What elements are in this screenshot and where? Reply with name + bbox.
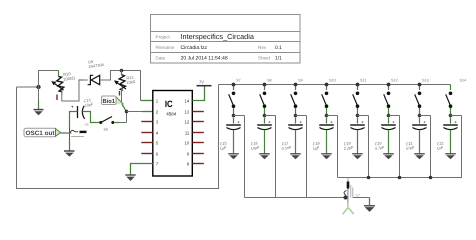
svg-text:+: + bbox=[268, 120, 271, 125]
wire top bus bbox=[219, 84, 451, 86]
ground below C16 bbox=[259, 154, 270, 159]
wire C13 left to U6 bbox=[70, 112, 78, 129]
wire N2 to riser bbox=[265, 115, 276, 117]
node J3 junction bbox=[125, 110, 129, 114]
wire riser 4 bbox=[337, 116, 339, 178]
wire R13 bottom down bbox=[121, 89, 123, 104]
svg-text:+: + bbox=[330, 120, 333, 125]
svg-text:12: 12 bbox=[185, 120, 190, 125]
ground below J1 bbox=[34, 87, 44, 115]
wire N6 to riser bbox=[389, 115, 400, 117]
wire N5 to riser bbox=[358, 115, 369, 117]
svg-text:14: 14 bbox=[185, 99, 190, 104]
switch S8 bbox=[260, 79, 272, 115]
node N7 junction bbox=[418, 114, 422, 118]
wire riser 7 bbox=[430, 116, 432, 178]
node bus junction x399.5 bbox=[398, 176, 402, 180]
svg-text:Rev: Rev bbox=[258, 45, 267, 50]
ground below C19 bbox=[352, 154, 363, 159]
svg-text:S12: S12 bbox=[391, 79, 398, 83]
node bus junction x430.5 bbox=[429, 176, 433, 180]
ground below C18 bbox=[321, 154, 332, 159]
svg-text:+: + bbox=[299, 120, 302, 125]
node U7 junction bbox=[344, 196, 348, 200]
pin 4 stub bbox=[141, 132, 153, 134]
switch S9 bbox=[291, 79, 303, 115]
resistor R13 potentiometer bbox=[114, 71, 136, 96]
svg-text:Project: Project bbox=[156, 34, 171, 39]
wire R10 bottom to D6 anode bbox=[62, 80, 88, 101]
capacitor C17 0.1nF bbox=[281, 118, 302, 154]
svg-text:0.1: 0.1 bbox=[275, 45, 282, 51]
svg-text:S11: S11 bbox=[360, 79, 366, 83]
pin 11 stub bbox=[192, 132, 204, 134]
net label OSC1 out bbox=[24, 128, 72, 137]
wire N7 to riser bbox=[420, 115, 431, 117]
power 7V bbox=[197, 80, 212, 90]
svg-text:+: + bbox=[392, 120, 395, 125]
svg-text:Date: Date bbox=[156, 55, 166, 60]
wire N3 to riser bbox=[296, 115, 307, 117]
ground below C15 bbox=[228, 154, 239, 159]
wire J3 to IC pin2 bbox=[127, 111, 143, 113]
capacitor C22 1nF bbox=[436, 118, 457, 154]
ground right of U7 bbox=[364, 206, 375, 212]
svg-text:1/1: 1/1 bbox=[275, 56, 282, 62]
svg-text:S14: S14 bbox=[460, 79, 467, 83]
wire riser 1 bbox=[244, 116, 246, 198]
wire to node J1 bbox=[17, 86, 39, 88]
title block bbox=[151, 15, 301, 64]
node N4 junction bbox=[325, 114, 329, 118]
capacitor C15 1µF bbox=[219, 118, 240, 154]
svg-text:+: + bbox=[423, 120, 426, 125]
svg-text:10: 10 bbox=[185, 141, 190, 146]
wire N4 to riser bbox=[327, 115, 338, 117]
wire N1 to riser bbox=[234, 115, 245, 117]
svg-text:S7: S7 bbox=[236, 79, 241, 83]
capacitor C13 10uF bbox=[71, 98, 95, 119]
svg-text:Bio1: Bio1 bbox=[103, 98, 116, 105]
ground below C21 bbox=[414, 154, 425, 159]
svg-text:11: 11 bbox=[185, 131, 190, 136]
pin 6 stub bbox=[141, 153, 153, 155]
svg-text:+: + bbox=[237, 120, 240, 125]
ground below C17 bbox=[290, 154, 301, 159]
wire lower bus bbox=[245, 197, 346, 199]
svg-text:13: 13 bbox=[185, 110, 190, 115]
switch S13 bbox=[415, 79, 429, 115]
pin 5 stub bbox=[141, 142, 153, 144]
svg-text:Circadia.fzz: Circadia.fzz bbox=[181, 45, 208, 51]
node N8 junction bbox=[449, 114, 453, 118]
node N5 junction bbox=[356, 114, 360, 118]
switch S10 bbox=[322, 79, 336, 115]
switch S12 bbox=[384, 79, 398, 115]
svg-text:S9: S9 bbox=[298, 79, 303, 83]
svg-text:U6: U6 bbox=[85, 123, 89, 127]
wire U7 to ground bbox=[353, 197, 370, 199]
switch S14 bbox=[446, 79, 467, 115]
svg-text:+: + bbox=[71, 105, 74, 111]
ground below C22 bbox=[445, 154, 456, 159]
capacitor C21 47µF bbox=[405, 118, 426, 154]
node N6 junction bbox=[387, 114, 391, 118]
svg-text:Filename: Filename bbox=[156, 45, 175, 50]
ground below U6 bbox=[64, 151, 75, 157]
net label Bio1 bbox=[102, 96, 124, 105]
svg-text:+: + bbox=[361, 120, 364, 125]
pin 12 stub bbox=[192, 121, 204, 123]
pin 13 stub bbox=[192, 111, 204, 113]
IC 4584 hex schmitt trigger bbox=[153, 91, 193, 177]
pin 3 stub bbox=[141, 121, 153, 123]
wire S6 to J3 riser bbox=[114, 122, 119, 124]
ground below C20 bbox=[383, 154, 394, 159]
wire pin14 to 7V bbox=[192, 90, 204, 101]
switch S6 bbox=[99, 117, 114, 132]
jack U7 bbox=[344, 178, 360, 208]
ground pin7 bbox=[125, 175, 135, 181]
pin 9 stub bbox=[192, 153, 204, 155]
svg-text:S6: S6 bbox=[104, 128, 108, 132]
wire riser 6 bbox=[399, 116, 401, 178]
wire J1 to R10 top bbox=[39, 71, 59, 88]
wire C13 right to S6 bbox=[82, 112, 99, 123]
capacitor C20 4.7µF bbox=[374, 118, 395, 154]
svg-text:4584: 4584 bbox=[166, 112, 177, 117]
pin 10 stub bbox=[192, 142, 204, 144]
pin 8 stub bbox=[192, 163, 204, 165]
wire riser 3 bbox=[306, 116, 308, 198]
svg-text:Interspecifics_Circadia: Interspecifics_Circadia bbox=[181, 32, 255, 41]
svg-text:S10: S10 bbox=[329, 79, 336, 83]
svg-text:20 Jul 2014 11:54:48: 20 Jul 2014 11:54:48 bbox=[181, 56, 228, 62]
node N1 junction bbox=[232, 114, 236, 118]
svg-text:S8: S8 bbox=[267, 79, 272, 83]
svg-text:Sheet: Sheet bbox=[258, 55, 271, 60]
svg-text:7V: 7V bbox=[199, 80, 204, 85]
svg-text:U7: U7 bbox=[356, 194, 360, 198]
jack U6 bbox=[70, 123, 89, 151]
node N3 junction bbox=[294, 114, 298, 118]
diode D6 1N4730A zener bbox=[88, 60, 105, 85]
svg-text:IC: IC bbox=[165, 99, 173, 109]
wire riser 5 bbox=[368, 116, 370, 178]
wire riser 8 bbox=[461, 116, 463, 178]
capacitor C18 1µF bbox=[312, 118, 333, 154]
wire pin7 to ground bbox=[131, 164, 153, 176]
node bus junction x368.5 bbox=[367, 176, 371, 180]
svg-text:OSC1 out: OSC1 out bbox=[26, 130, 56, 137]
capacitor C16 10µF bbox=[250, 118, 271, 154]
wire big loop left/bottom/right riser bbox=[17, 85, 219, 189]
jack U7 sleeve mark bbox=[343, 203, 354, 215]
switch S11 bbox=[353, 79, 367, 115]
resistor R10 potentiometer bbox=[51, 71, 75, 101]
node J1 junction bbox=[36, 85, 40, 89]
svg-text:+: + bbox=[454, 120, 457, 125]
svg-text:S13: S13 bbox=[422, 79, 429, 83]
switch S7 bbox=[229, 79, 241, 115]
capacitor C19 2.2µF bbox=[343, 118, 364, 154]
wire D6 to IC pin1 corner bbox=[100, 71, 141, 101]
wire upper bus bbox=[338, 116, 462, 178]
wire riser 2 bbox=[275, 116, 277, 198]
node J2 junction bbox=[120, 69, 124, 73]
wire N8 to riser bbox=[451, 115, 462, 117]
node N2 junction bbox=[263, 114, 267, 118]
